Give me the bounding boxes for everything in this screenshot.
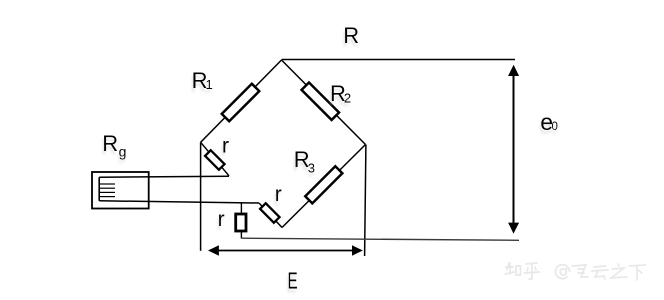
- svg-text:E: E: [288, 268, 298, 294]
- wire bridge upper-right edge (carries R2): [282, 60, 366, 145]
- dimension arrow e0 (double-headed vertical): [508, 65, 519, 234]
- wire gauge bottom lead: [99, 201, 259, 203]
- 乎: [524, 263, 539, 279]
- wire top output line from bridge apex to e0 arrow: [282, 59, 516, 61]
- wire gauge top lead: [99, 176, 229, 177]
- wire stub below vertical r: [240, 231, 242, 238]
- 知: [506, 263, 521, 275]
- strain gauge grid left vertical: [98, 177, 100, 201]
- lead resistor r (upper, near left vertex): [205, 150, 224, 169]
- wire bridge lower-right edge (carries R3): [282, 145, 366, 228]
- 之: [611, 264, 627, 278]
- @: [556, 265, 570, 279]
- wire diagonal branch from left vertex through lead resistance r: [201, 142, 229, 176]
- wire bridge left vertical edge down to E dimension: [200, 142, 202, 251]
- strain gauge Rg outer frame: [92, 172, 149, 209]
- wire bridge right vertical edge down to E dimension: [365, 145, 366, 257]
- svg-text:r: r: [222, 135, 229, 158]
- svg-text:R: R: [343, 23, 359, 48]
- wire bridge upper-left edge (carries R1): [201, 60, 282, 142]
- lead resistor r (middle diagonal): [260, 203, 279, 222]
- 下: [629, 265, 645, 280]
- dimension arrow E (double-headed): [208, 245, 363, 255]
- wire bottom output line to below e0 arrow: [241, 238, 519, 240]
- resistor R2: [302, 82, 339, 119]
- lead resistor r (vertical, at bottom): [236, 214, 246, 231]
- wire diagonal branch through lead resistance r to bridge bottom vertex: [259, 203, 282, 228]
- 飞: [572, 265, 588, 277]
- 云: [592, 266, 608, 279]
- strain gauge grid hatch lines: [99, 184, 115, 197]
- watermark 知乎 @飞云之下: [506, 263, 646, 280]
- resistor R1: [222, 84, 259, 121]
- wire stub from bottom lead down to vertical r: [240, 203, 242, 214]
- svg-text:r: r: [275, 183, 282, 206]
- resistor R3: [305, 166, 342, 203]
- svg-text:r: r: [218, 208, 225, 231]
